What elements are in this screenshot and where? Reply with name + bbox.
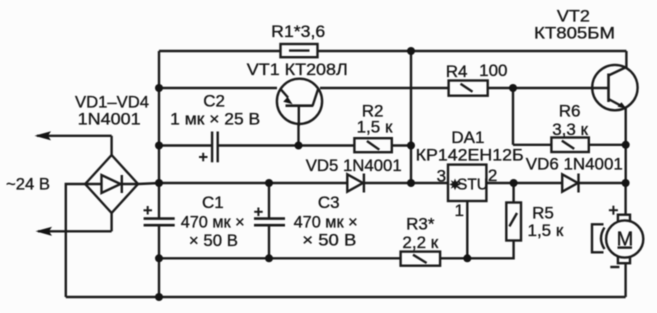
wire bridge left leg bbox=[66, 184, 85, 297]
svg-text:1,5 к: 1,5 к bbox=[357, 117, 393, 136]
svg-text:R4: R4 bbox=[446, 62, 468, 81]
wire R6 right bbox=[589, 144, 626, 146]
svg-text:~24 В: ~24 В bbox=[6, 175, 50, 194]
svg-text:VT1 КТ208Л: VT1 КТ208Л bbox=[247, 60, 348, 79]
node dot R2 right bbox=[407, 142, 415, 150]
motor M1 bbox=[606, 206, 643, 267]
wire C3 vertical upper bbox=[268, 183, 270, 218]
svg-text:VD6 1N4001: VD6 1N4001 bbox=[526, 155, 623, 174]
wire R5 top bbox=[512, 183, 514, 203]
node dot R6 right bbox=[622, 141, 630, 149]
resistor R6 bbox=[551, 138, 588, 153]
svg-text:100: 100 bbox=[479, 61, 507, 80]
wire motor bottom bbox=[624, 263, 626, 297]
wire left bus upper bbox=[158, 51, 160, 218]
node dot bus-bottom rail bbox=[155, 293, 163, 301]
node dot C3 top bbox=[265, 179, 273, 187]
svg-text:C2: C2 bbox=[203, 92, 225, 111]
svg-text:3,3 к: 3,3 к bbox=[552, 120, 588, 139]
svg-text:1,5 к: 1,5 к bbox=[528, 221, 564, 240]
wire VD6 to motor node bbox=[579, 182, 626, 184]
svg-text:1N4001: 1N4001 bbox=[78, 109, 141, 128]
wire VT2 emitter down bbox=[625, 108, 627, 183]
wire bridge top leg bbox=[110, 136, 112, 155]
wire C3 vertical lower bbox=[268, 226, 270, 258]
regulator DA1 box bbox=[448, 165, 486, 201]
node dot bus-R3 line bbox=[155, 254, 163, 262]
svg-text:КР142ЕН12Б: КР142ЕН12Б bbox=[416, 146, 524, 165]
wire VT1 collector to R4 bbox=[320, 87, 449, 89]
node dot bus-C2 bbox=[155, 142, 163, 150]
wire STU pin1 bbox=[466, 201, 468, 258]
wire bottom rail bbox=[66, 296, 626, 298]
resistor R2 bbox=[354, 138, 391, 152]
svg-text:R1*3,6: R1*3,6 bbox=[271, 22, 325, 41]
wire C2 line left bbox=[159, 144, 211, 146]
transistor VT1 bbox=[277, 79, 322, 126]
wire top rail bbox=[159, 50, 626, 52]
svg-text:2,2 к: 2,2 к bbox=[402, 233, 438, 252]
wire pin2 line bbox=[486, 182, 562, 184]
wire C2 to R2 bbox=[219, 144, 355, 146]
wire R3 line left bbox=[159, 257, 401, 259]
node dot C3 bottom bbox=[265, 254, 273, 262]
svg-text:470 мк ×: 470 мк × bbox=[294, 213, 358, 232]
wire lower input arrow bbox=[38, 230, 112, 232]
svg-text:STU: STU bbox=[457, 177, 488, 194]
wire VD5 rail a bbox=[159, 182, 347, 184]
node dot bus-VD5 rail bbox=[155, 179, 163, 187]
node dot bus-emitter bbox=[155, 84, 163, 92]
wire R4 to VT2 base bbox=[488, 87, 594, 89]
wire bridge bottom leg bbox=[110, 213, 112, 231]
svg-text:VD5 1N4001: VD5 1N4001 bbox=[306, 156, 402, 175]
wire R3 line right bbox=[440, 240, 513, 258]
wire bridge right leg bbox=[138, 183, 160, 184]
svg-text:× 50 В: × 50 В bbox=[189, 231, 238, 250]
svg-text:C3: C3 bbox=[318, 193, 340, 212]
wire vertical x411 bbox=[410, 51, 412, 183]
svg-text:1 мк × 25 В: 1 мк × 25 В bbox=[170, 110, 260, 129]
transistor VT2 bbox=[592, 65, 637, 110]
wire upper input arrow bbox=[37, 135, 112, 137]
wire R2 to node bbox=[392, 144, 411, 146]
svg-text:2: 2 bbox=[488, 166, 497, 185]
svg-text:R6: R6 bbox=[559, 102, 581, 121]
wire VT2 base node drop bbox=[512, 88, 514, 145]
diode VD5 bbox=[347, 174, 364, 193]
resistor R1 bbox=[281, 44, 318, 57]
resistor R4 bbox=[449, 81, 488, 96]
wire left bus lower bbox=[158, 226, 160, 297]
svg-text:DA1: DA1 bbox=[451, 128, 484, 147]
svg-text:R5: R5 bbox=[532, 204, 554, 223]
svg-text:КТ805БМ: КТ805БМ bbox=[534, 23, 615, 42]
node dot R4 out bbox=[509, 84, 517, 92]
wire VT1 base drop bbox=[297, 124, 299, 146]
wire VT1 emitter rail bbox=[159, 87, 277, 89]
svg-text:C1: C1 bbox=[202, 193, 224, 212]
wire R6 left bbox=[513, 144, 551, 146]
node dot VT1 base bbox=[295, 142, 303, 150]
capacitor C2 bbox=[199, 132, 218, 163]
wire VD5 rail b bbox=[364, 182, 448, 184]
wire VT2 collector up bbox=[625, 51, 627, 68]
node dot R5 top bbox=[510, 179, 518, 187]
regulator star bbox=[449, 179, 461, 191]
node dot motor top bbox=[622, 179, 630, 187]
svg-text:R3*: R3* bbox=[406, 215, 435, 234]
svg-text:3: 3 bbox=[437, 167, 446, 186]
node dot pin1 bbox=[463, 254, 471, 262]
motor stator bracket bbox=[592, 224, 605, 252]
capacitor C3 bbox=[254, 208, 285, 226]
node dot top rail x411 bbox=[407, 47, 415, 55]
bridge rectifier VD1-VD4 bbox=[85, 155, 138, 213]
svg-text:470 мк ×: 470 мк × bbox=[181, 213, 245, 232]
resistor R3 bbox=[401, 252, 441, 266]
resistor R5 bbox=[506, 203, 521, 241]
node dot pin3 bbox=[407, 179, 415, 187]
diode VD6 bbox=[562, 174, 578, 193]
svg-text:1: 1 bbox=[454, 201, 463, 220]
wire motor top bbox=[624, 183, 626, 215]
capacitor C1 bbox=[144, 206, 175, 225]
svg-text:× 50 В: × 50 В bbox=[302, 231, 356, 250]
